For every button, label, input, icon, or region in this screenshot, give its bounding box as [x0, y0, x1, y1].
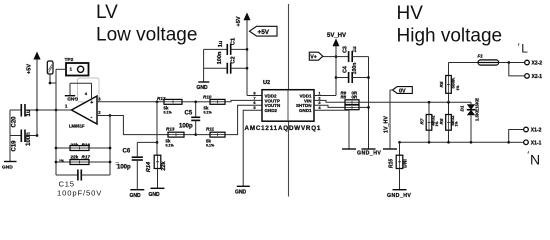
svg-text:R6: R6 [439, 118, 444, 124]
svg-text:100n: 100n [352, 63, 358, 75]
net flag 0V [393, 87, 413, 95]
svg-text:0.1%: 0.1% [164, 111, 173, 115]
op-amp U3 LM851F [65, 91, 101, 129]
svg-text:0V: 0V [399, 88, 406, 94]
svg-text:1%: 1% [455, 121, 459, 127]
svg-text:5V_HV: 5V_HV [327, 33, 346, 39]
wire op-amp +input row (pin3) [97, 101, 164, 103]
svg-text:C15: C15 [59, 180, 75, 189]
junction R6 bottom [447, 141, 450, 144]
svg-text:R15: R15 [389, 159, 395, 168]
svg-text:1u: 1u [352, 46, 358, 52]
svg-text:100p: 100p [179, 124, 193, 130]
connector pin X2-1 [525, 74, 543, 81]
capacitor C3 1u [336, 46, 369, 62]
test point TP2 [56, 57, 89, 76]
resistor R11 5k 0.1% [206, 105, 262, 147]
resistor R17 22k [56, 155, 110, 165]
wire HV bottom rail [400, 141, 509, 143]
wire IC pin5 to GND [243, 110, 262, 186]
power flag 5V_HV (arrow) [327, 33, 346, 96]
svg-text:C19: C19 [12, 140, 18, 152]
tick mark near N [527, 151, 530, 153]
capacitor C20 1u [10, 104, 37, 128]
ground (GND2 pin5) [235, 186, 250, 195]
wire C3/C4 right column to GND_HV [368, 57, 370, 149]
ground GND_HV (SHTDN/C3/C4) [362, 148, 376, 150]
svg-text:1V_HV: 1V_HV [383, 116, 389, 133]
junction R6/R5 top [447, 101, 450, 104]
junction R7 top [428, 101, 431, 104]
svg-text:X2-2: X2-2 [532, 61, 543, 67]
svg-text:1.5KE15KE: 1.5KE15KE [474, 98, 479, 121]
power flag +5V (arrow at C1/C2 rail) [236, 12, 251, 95]
junction R17 right [109, 161, 112, 164]
resistor R10 5k 0.1% [196, 95, 262, 115]
ground GND_HV (R15) [387, 190, 411, 199]
title HV [397, 3, 503, 47]
wire R17/C15 right vertical [109, 116, 111, 176]
wire op-amp output row [37, 109, 72, 111]
svg-text:+5V: +5V [27, 64, 33, 74]
ground (left, for C20/C19) [2, 110, 17, 171]
ground (op-amp pin4, mirrored) [65, 95, 78, 101]
net flag V+ [309, 52, 336, 60]
wire +input bias branch (to R14) [156, 102, 158, 155]
stray label marks right of R17 [116, 163, 120, 165]
svg-text:AMC1211AQDWVRQ1: AMC1211AQDWVRQ1 [245, 125, 322, 132]
resistor R12 5k 0.1% [157, 96, 196, 115]
svg-text:V+: V+ [310, 55, 317, 61]
svg-text:N: N [530, 152, 540, 168]
svg-text:GND: GND [235, 190, 247, 196]
ground (C1/C2) [197, 82, 210, 91]
svg-text:22k: 22k [161, 160, 167, 170]
junction SHTDN net [367, 106, 370, 109]
svg-text:R14: R14 [146, 161, 152, 172]
svg-text:-: - [91, 115, 93, 121]
svg-text:100p: 100p [117, 165, 131, 171]
wire op-amp pin4 to GND [70, 83, 92, 99]
junction fuse/X2 [507, 61, 510, 64]
connector pin X2-2 [525, 60, 543, 66]
svg-text:100pF/50V: 100pF/50V [57, 188, 102, 197]
svg-text:100n: 100n [217, 51, 223, 64]
resistor R16 22k [56, 142, 110, 150]
junction X1 [507, 141, 510, 144]
connector pin X1-2 [524, 127, 542, 134]
svg-text:R10: R10 [203, 95, 212, 100]
svg-text:F1: F1 [478, 54, 484, 59]
resistor R15 DNI [389, 142, 409, 189]
wire C1/C2 left to GND [203, 49, 205, 82]
junction D1 bottom [470, 141, 473, 144]
svg-text:GND_HV: GND_HV [387, 193, 411, 199]
ground (R14) [149, 188, 165, 198]
svg-text:High voltage: High voltage [397, 26, 503, 47]
svg-text:GND: GND [2, 165, 13, 171]
svg-text:TP2: TP2 [65, 57, 74, 63]
ground GND_HV (pin4) [342, 148, 356, 150]
svg-text:1u: 1u [218, 40, 224, 47]
resistor R9 0R [314, 90, 359, 104]
IC U2 AMC1211AQDWVRQ1 [245, 80, 322, 132]
node output junctions on left column [55, 109, 58, 112]
svg-text:U2: U2 [263, 80, 270, 86]
net flag +5V (label) [250, 26, 278, 36]
svg-text:C20: C20 [12, 116, 18, 128]
svg-text:GND1: GND1 [299, 108, 312, 113]
junction C4 right [367, 76, 370, 79]
fuse F1 [449, 54, 525, 66]
tick mark near L [517, 43, 520, 45]
resistor R7 4k02 1% [420, 102, 439, 142]
junction FB1/TP2 node [49, 82, 52, 85]
wire op-amp -input row (pin2) [97, 115, 123, 117]
svg-text:D1: D1 [460, 105, 465, 111]
svg-text:GND: GND [130, 193, 142, 199]
svg-text:HV: HV [397, 3, 424, 24]
wire -input net to R13 row [110, 116, 168, 135]
svg-text:R8: R8 [341, 95, 347, 100]
resistor R8 0R [314, 95, 369, 110]
svg-text:0.1%: 0.1% [166, 144, 175, 148]
svg-text:C2: C2 [231, 56, 237, 63]
svg-text:C1: C1 [231, 38, 237, 45]
svg-text:DNI: DNI [402, 159, 408, 168]
svg-text:R17: R17 [82, 155, 91, 160]
svg-text:550K: 550K [451, 77, 456, 89]
svg-text:1: 1 [70, 66, 73, 71]
junction R7 bottom [428, 141, 431, 144]
svg-text:+5V: +5V [258, 29, 270, 36]
svg-text:X1-2: X1-2 [531, 128, 542, 134]
svg-text:0.1%: 0.1% [206, 144, 215, 148]
ground GND_HV (0V) [383, 148, 397, 150]
capacitor C6 100p [117, 142, 143, 189]
wire VIN net (R9 to divider) [359, 101, 471, 103]
capacitor C1 1u [204, 38, 247, 55]
svg-text:C4: C4 [343, 66, 349, 73]
svg-text:LV: LV [96, 2, 118, 23]
svg-text:LM851F: LM851F [69, 124, 85, 129]
svg-text:L: L [521, 42, 528, 56]
svg-text:C3: C3 [343, 46, 349, 53]
wire +5V to IC pin8 [247, 95, 262, 97]
junction R12 left / R14 branch [156, 100, 159, 103]
svg-text:+: + [90, 100, 93, 106]
capacitor C4 100n [336, 63, 369, 83]
svg-text:1%: 1% [456, 85, 460, 91]
svg-text:GND: GND [197, 85, 209, 91]
ground (C6) [130, 190, 145, 199]
resistor R13 5k 0.1% [166, 127, 211, 148]
capacitor C5 100p [179, 102, 200, 135]
svg-text:GND2: GND2 [265, 108, 278, 113]
wire to X1-1 [509, 141, 524, 143]
capacitor C2 100n [204, 51, 247, 74]
svg-text:C5: C5 [185, 110, 193, 116]
wire tee to C6 [137, 141, 157, 143]
svg-text:R7: R7 [420, 118, 425, 124]
junction C5 top [194, 100, 197, 103]
capacitor C15 100pF/50V [56, 170, 110, 198]
junction R14/C6 tee [156, 141, 159, 144]
resistor R14 22k [146, 155, 167, 188]
power flag +5V (left arrow) [27, 52, 41, 137]
svg-text:GND: GND [67, 95, 78, 101]
junction C5 bottom [194, 133, 197, 136]
wire IC pin1 to 5V_HV [314, 95, 336, 97]
wire 0V column [389, 90, 391, 149]
svg-text:100n: 100n [26, 132, 32, 146]
svg-text:C6: C6 [123, 148, 131, 154]
wire IC pin4 to GND_HV [314, 110, 349, 149]
LV/HV isolation boundary line [288, 4, 290, 197]
resistor R5 550K 1% [439, 63, 460, 103]
TVS diode D1 1.5KE15KE [460, 98, 480, 142]
svg-text:GND_HV: GND_HV [357, 151, 381, 157]
wire to X2-1 [509, 63, 525, 76]
wire TP2 net vertical [55, 69, 57, 175]
junction pin2 net / feedback column [109, 114, 112, 117]
svg-text:0R: 0R [352, 95, 358, 100]
svg-text:1u: 1u [26, 109, 32, 116]
svg-text:X1-1: X1-1 [531, 141, 542, 147]
svg-text:R11: R11 [206, 127, 215, 132]
wire to X1-2 [509, 130, 524, 143]
junction rail/R15 [398, 141, 401, 144]
svg-text:+5V: +5V [236, 16, 242, 26]
outline box (thin) [78, 78, 100, 102]
connector pin X1-1 [524, 140, 542, 147]
wire FB1 to node [50, 82, 56, 84]
svg-text:R13: R13 [166, 127, 175, 132]
resistor R6 4k02 1% [439, 102, 458, 142]
svg-text:0.1%: 0.1% [204, 111, 213, 115]
ferrite bead FB1 [47, 61, 53, 83]
svg-text:22k: 22k [71, 155, 79, 160]
svg-text:Low voltage: Low voltage [96, 25, 197, 46]
svg-text:GND: GND [149, 192, 161, 198]
capacitor C19 100n [10, 130, 37, 152]
svg-text:X2-1: X2-1 [532, 74, 543, 80]
junction R16 right [109, 147, 112, 150]
title LV [96, 2, 197, 46]
svg-text:R5: R5 [439, 81, 444, 87]
